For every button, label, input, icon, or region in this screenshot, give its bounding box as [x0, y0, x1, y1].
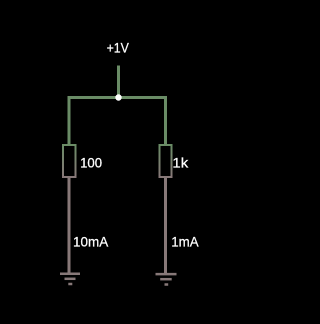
- svg-text:10mA: 10mA: [73, 234, 109, 250]
- svg-text:100: 100: [80, 155, 102, 171]
- svg-text:1mA: 1mA: [171, 234, 199, 250]
- svg-text:+1V: +1V: [107, 40, 130, 56]
- svg-text:1k: 1k: [172, 155, 189, 171]
